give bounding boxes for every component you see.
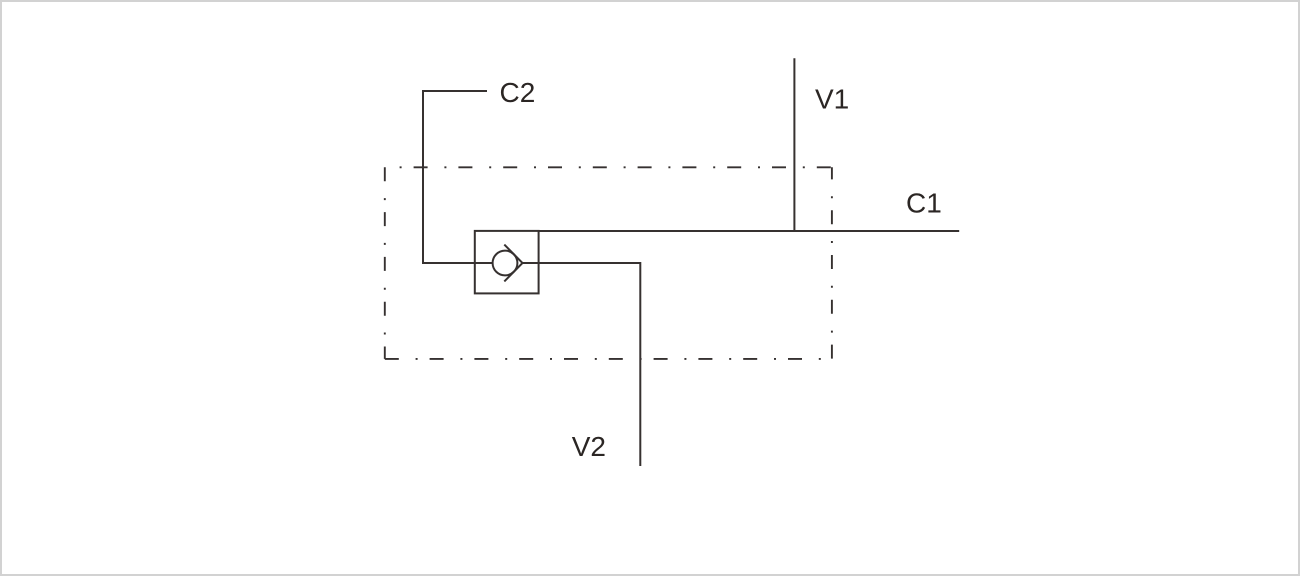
enclosure boundary right edge (dash-dot) — [831, 167, 833, 359]
wire: C2 stub horizontal — [423, 90, 487, 92]
enclosure boundary bottom edge (dash-dot) — [385, 358, 832, 360]
enclosure boundary top edge (dash-dot) — [385, 166, 832, 168]
wire: V1 vertical — [793, 58, 795, 232]
wire: C2 vertical drop — [422, 90, 424, 263]
svg-text:V2: V2 — [572, 431, 606, 462]
wire: valve right port to V2 corner — [523, 262, 641, 264]
wire: valve top edge to C1 port — [539, 230, 960, 232]
svg-text:V1: V1 — [815, 84, 849, 115]
enclosure boundary left edge (dash-dot) — [384, 167, 386, 359]
svg-text:C2: C2 — [500, 77, 536, 108]
check valve V10 body — [475, 231, 539, 294]
svg-text:C1: C1 — [906, 188, 942, 219]
wire: V2 vertical — [639, 262, 641, 466]
wire: into check valve left port — [422, 262, 493, 264]
check valve seat — [504, 245, 522, 282]
check valve ball — [493, 251, 518, 276]
